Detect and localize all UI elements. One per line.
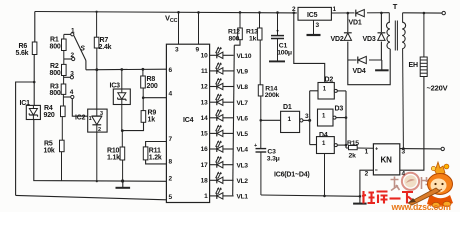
svg-text:16: 16 <box>201 146 208 153</box>
wire R8-R9 junction to IC4 pin4 <box>142 88 144 111</box>
wire tap to IC2 pin3 <box>96 70 98 109</box>
wire R3-R4 / contact 4 <box>62 94 64 106</box>
resistor R11 (across pins 7-8) <box>146 142 167 147</box>
svg-text:R8: R8 <box>147 76 156 83</box>
svg-text:R1: R1 <box>50 37 59 44</box>
svg-text:100μ: 100μ <box>277 50 292 57</box>
wire R7 drop from rail <box>96 12 98 37</box>
svg-text:14: 14 <box>201 115 208 122</box>
wire Vcc feed to D2 <box>294 13 325 83</box>
svg-text:VL10: VL10 <box>237 53 252 60</box>
wire transformer primary bottom to KN pin3 <box>402 49 405 149</box>
node switch contact 2 <box>72 57 75 60</box>
watermark brand text <box>362 191 413 204</box>
switch S arm <box>74 36 86 61</box>
node junction R6/outer branch <box>33 81 36 84</box>
wire IC4 pin3 from rail <box>178 12 180 44</box>
svg-text:10: 10 <box>201 53 208 60</box>
svg-text:EH: EH <box>409 62 418 69</box>
svg-text:R2: R2 <box>50 63 59 70</box>
wire input tree <box>309 91 311 145</box>
resistor R7 <box>94 37 99 48</box>
svg-text:2: 2 <box>365 171 369 178</box>
svg-text:D4: D4 <box>319 132 328 139</box>
wire bridge bottom <box>348 59 382 61</box>
relay KN <box>373 144 399 175</box>
svg-text:VL1: VL1 <box>237 194 249 201</box>
node junction R7/tap <box>95 68 98 71</box>
diode IC3 reference <box>113 89 130 105</box>
node junction R10 top <box>121 129 124 132</box>
svg-text:R11: R11 <box>149 148 161 155</box>
svg-text:4: 4 <box>169 91 173 98</box>
svg-text:IC2: IC2 <box>75 115 86 122</box>
node junction IC3 top <box>120 68 123 71</box>
wire bridge right rail <box>380 13 382 60</box>
svg-text:R4: R4 <box>44 105 53 112</box>
resistor R2 <box>62 64 67 75</box>
IC1 voltage reference <box>26 105 40 119</box>
svg-text:+: + <box>276 29 279 35</box>
wire bottom rail right <box>261 195 360 196</box>
svg-text:~220V: ~220V <box>427 84 448 93</box>
svg-text:1.2k: 1.2k <box>149 155 162 162</box>
svg-text:17: 17 <box>201 162 208 169</box>
diode VD4 <box>357 56 370 64</box>
svg-text:IC6(D1~D4): IC6(D1~D4) <box>274 172 310 179</box>
wire selected tap to IC4 pin6 <box>86 68 166 71</box>
svg-text:2k: 2k <box>349 153 357 160</box>
ground C1 <box>269 60 285 62</box>
svg-text:5.6k: 5.6k <box>16 50 29 57</box>
svg-text:R12: R12 <box>228 29 240 36</box>
svg-text:KN: KN <box>381 156 393 165</box>
svg-text:13: 13 <box>201 99 208 106</box>
svg-text:1: 1 <box>204 193 208 200</box>
wire C3 to bottom rail <box>260 152 262 195</box>
resistor R10 <box>121 131 123 147</box>
svg-text:3.3μ: 3.3μ <box>267 156 280 163</box>
svg-text:920: 920 <box>44 112 55 119</box>
resistor R1 <box>63 34 65 39</box>
resistor R9 <box>141 111 146 123</box>
wire R5 to ground wire <box>61 152 63 181</box>
svg-text:3: 3 <box>316 22 320 29</box>
svg-text:R10: R10 <box>107 148 120 155</box>
wire EH to KN pin4 <box>400 77 424 171</box>
wire bridge to transformer secondary bottom <box>348 49 390 85</box>
svg-text:VL2: VL2 <box>237 178 249 185</box>
svg-text:1k: 1k <box>148 117 156 124</box>
resistor R13 <box>259 13 261 29</box>
svg-text:IC5: IC5 <box>307 12 318 19</box>
wire D1 output to node 3 <box>303 119 310 121</box>
wire R4-R5 <box>61 117 63 141</box>
diode VD2 <box>344 32 353 42</box>
svg-text:1k: 1k <box>249 36 257 43</box>
svg-text:IC4: IC4 <box>183 117 194 124</box>
svg-text:D3: D3 <box>335 106 344 113</box>
svg-text:R7: R7 <box>100 37 109 44</box>
wire R9 bottom to IC3/R10 <box>122 122 144 130</box>
svg-text:3: 3 <box>305 113 309 120</box>
op-amp U IC5 regulator <box>298 7 331 20</box>
wire KN pin3 to mains terminal <box>400 148 441 150</box>
wire R6 to IC1 <box>33 55 35 106</box>
wire mains top (transformer primary to terminal) <box>403 12 443 14</box>
wire R2-R3 / contact 3 <box>63 76 65 85</box>
wire Vcc top rail <box>35 12 297 13</box>
svg-text:R15: R15 <box>347 140 359 147</box>
node terminal top right <box>442 11 445 14</box>
op-amp U IC4 LED driver <box>166 44 209 202</box>
svg-text:VD1: VD1 <box>349 20 362 27</box>
wire IC2 pin2 down to ground wire <box>96 132 98 181</box>
wire switch chain top <box>64 33 71 35</box>
svg-text:1: 1 <box>89 116 92 122</box>
resistor R14 <box>258 85 263 96</box>
svg-text:R9: R9 <box>148 110 157 117</box>
ground IC5 <box>307 34 321 36</box>
svg-text:C1: C1 <box>279 43 288 50</box>
svg-text:5: 5 <box>169 194 173 201</box>
svg-text:2: 2 <box>98 127 101 133</box>
wire IC3 top lead <box>121 70 123 90</box>
wire IC1 to ground wire <box>34 120 167 182</box>
resistor R15 <box>346 147 349 149</box>
node junction ground <box>121 179 124 182</box>
svg-text:200: 200 <box>147 83 158 90</box>
svg-text:18: 18 <box>201 178 208 185</box>
svg-text:800: 800 <box>50 70 61 77</box>
svg-text:1: 1 <box>71 28 75 35</box>
svg-text:15: 15 <box>201 131 208 138</box>
svg-text:VD3: VD3 <box>363 36 376 43</box>
wire EH line from mains top <box>423 13 425 57</box>
svg-text:IC3: IC3 <box>110 83 121 90</box>
wire IC5 pin3 <box>313 20 315 34</box>
wire R14 to C3 <box>260 96 262 149</box>
svg-text:3: 3 <box>100 111 103 117</box>
svg-text:VL5: VL5 <box>237 131 249 138</box>
svg-text:1: 1 <box>365 149 369 156</box>
svg-text:T: T <box>393 2 398 11</box>
wire D1 input <box>261 119 281 121</box>
wire IC3 bottom lead <box>121 105 123 131</box>
svg-text:7: 7 <box>169 136 173 143</box>
svg-text:11: 11 <box>201 68 208 75</box>
wire bridge left rail <box>347 13 349 60</box>
svg-text:VD4: VD4 <box>353 68 366 75</box>
heater EH <box>420 57 427 77</box>
resistor R3 <box>61 84 66 94</box>
svg-text:2.4k: 2.4k <box>99 44 112 51</box>
wire IC6 ground stub <box>324 154 326 196</box>
svg-text:10k: 10k <box>44 148 55 155</box>
svg-text:+: + <box>375 147 378 153</box>
svg-text:1.1k: 1.1k <box>107 155 120 162</box>
capacitor C3 <box>256 148 267 150</box>
svg-text:VL6: VL6 <box>237 115 249 122</box>
wire top rail right segment (IC5 out to transformer) <box>331 12 389 14</box>
wire KN pin2 to ground <box>360 170 374 196</box>
svg-text:VL9: VL9 <box>237 69 249 76</box>
wire R1-R2 / contact 2 <box>63 51 65 65</box>
ground (main) <box>122 181 124 188</box>
svg-text:6: 6 <box>169 67 173 74</box>
resistor R6 <box>32 42 37 55</box>
resistor R12 <box>239 12 241 28</box>
svg-text:9: 9 <box>196 47 200 54</box>
svg-text:D1: D1 <box>283 104 292 111</box>
node switch contact 4 <box>71 95 74 98</box>
svg-text:2: 2 <box>169 176 173 183</box>
node 3 <box>308 119 311 122</box>
diode VD1 <box>355 9 368 17</box>
svg-text:8: 8 <box>169 159 173 166</box>
svg-text:200k: 200k <box>265 92 280 99</box>
svg-text:VL4: VL4 <box>237 147 249 154</box>
node switch contact 3 <box>70 76 73 79</box>
wire outer-left branch <box>16 82 35 195</box>
svg-text:+: + <box>254 143 257 149</box>
wire R7 to tap wire <box>96 48 98 70</box>
wire IC4 pin9 from rail <box>198 12 200 44</box>
svg-text:S: S <box>80 46 85 53</box>
svg-text:C3: C3 <box>267 149 276 156</box>
node terminal right <box>441 147 444 150</box>
watermark stamp <box>391 173 430 191</box>
svg-text:1: 1 <box>333 6 337 13</box>
watermark mascot <box>408 162 453 208</box>
wire R13 to R14 <box>259 40 261 85</box>
svg-text:3: 3 <box>70 71 74 78</box>
wire left branch: rail corner down through R6/IC1 column <box>34 12 36 43</box>
svg-text:R6: R6 <box>19 43 28 50</box>
svg-text:800: 800 <box>229 36 240 43</box>
svg-text:IC1: IC1 <box>20 100 31 107</box>
svg-text:12: 12 <box>201 84 208 91</box>
svg-text:4: 4 <box>70 89 74 96</box>
diode VD3 <box>377 32 386 42</box>
svg-text:R5: R5 <box>44 141 53 148</box>
ground bridge <box>381 60 383 70</box>
svg-text:www.dzsc.com: www.dzsc.com <box>391 202 452 212</box>
wire bottom rail left (to IC4 pin5) <box>16 195 167 199</box>
wire output tree <box>337 90 346 92</box>
svg-text:3: 3 <box>175 47 179 54</box>
svg-text:VD2: VD2 <box>331 36 344 43</box>
wire contact4 to IC2 pin1 <box>72 99 87 117</box>
svg-text:R13: R13 <box>246 29 258 36</box>
wire R10 to ground wire <box>122 160 124 181</box>
svg-text:800: 800 <box>50 44 61 51</box>
svg-text:800: 800 <box>50 90 61 97</box>
op-amp IC2 (TL431 shunt reference) <box>88 109 107 132</box>
node junction R8 top <box>142 68 145 71</box>
svg-text:VL8: VL8 <box>237 84 249 91</box>
capacitor C1 <box>277 13 279 36</box>
svg-text:2: 2 <box>71 52 75 59</box>
resistor R5 <box>60 140 65 152</box>
resistor R8 <box>142 69 144 76</box>
svg-text:1: 1 <box>288 116 292 123</box>
wire LED anode bus <box>233 45 235 195</box>
ground KN <box>359 196 361 203</box>
resistor R4 <box>61 106 66 117</box>
node switch contact 1 <box>71 33 74 36</box>
svg-text:VL7: VL7 <box>237 100 249 107</box>
svg-text:VL3: VL3 <box>237 162 249 169</box>
